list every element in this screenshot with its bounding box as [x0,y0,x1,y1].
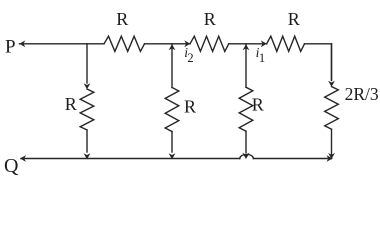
arrowhead branch 1 pointing down at bottom rail [84,153,91,159]
resistor R4 (branch 1 vertical, value R) [80,89,94,130]
wire: crossover hop over branch 3 arrow [240,154,254,158]
svg-text:Q: Q [4,155,19,177]
resistor R5 (branch 2 vertical, value R) [165,88,179,132]
wire: top rail from R1 to node with current i2 [145,43,191,45]
svg-text:P: P [5,37,16,58]
wire: branch 2 from resistor down to bottom rail [171,132,173,153]
resistor R1 (top horizontal, value R) [104,36,145,51]
wire: bottom rail from hop to bottom-right corner [253,158,331,160]
resistor R7 (branch 4 vertical, value 2R/3) [325,87,339,130]
wire: top rail from R3 to top-right corner [305,44,332,80]
svg-text:1: 1 [259,51,265,65]
arrowhead branch 3 pointing up at top rail [243,44,250,50]
svg-text:R: R [204,9,216,29]
arrowhead at node P pointing left [19,40,25,47]
svg-text:R: R [65,94,77,114]
wire: branch 2 vertical from top rail to resistor [171,44,173,88]
wire: branch 3 from resistor down to hop over bottom rail [245,131,247,152]
arrowhead at node Q pointing left [20,155,26,162]
arrowhead branch 4 pointing down at bottom-right corner [328,153,335,159]
arrowhead branch 4 pointing down into resistor 2R/3 [328,81,335,87]
wire: bottom rail from Q arrow to crossover hop [21,158,240,160]
arrowhead branch 2 pointing down at bottom rail [169,153,176,159]
svg-text:R: R [288,9,300,29]
wire: top rail from R2 to node with current i1 [229,43,267,45]
wire: branch 4 from resistor down to bottom-right corner [331,129,333,158]
wire: branch 1 vertical from top rail down to arrow [86,44,88,83]
arrowhead of current i1 pointing right into R3 [261,40,267,47]
svg-text:2R/3: 2R/3 [345,84,379,104]
resistor R6 (branch 3 vertical, value R) [239,87,253,131]
wire: top rail from P arrow to resistor R1 [20,43,105,45]
wire: branch 4 vertical from top-right corner down to arrow [331,44,333,81]
arrowhead on bottom rail pointing right into corner [327,155,333,162]
svg-text:2: 2 [187,51,193,65]
wire: branch 1 from resistor down to bottom rail [86,130,88,152]
arrowhead branch 2 pointing up at top rail [169,44,176,50]
wire: branch 3 vertical from top rail to resistor [245,44,247,88]
resistor R2 (top horizontal, value R) [190,36,229,51]
svg-text:R: R [184,97,196,117]
svg-text:R: R [116,9,128,29]
svg-text:R: R [252,95,264,115]
arrowhead branch 1 pointing down into resistor R4 [84,83,91,89]
resistor R3 (top horizontal, value R) [267,36,305,51]
arrowhead of current i2 pointing right into R2 [184,40,190,47]
arrowhead branch 3 pointing down at crossover hop [242,153,249,159]
